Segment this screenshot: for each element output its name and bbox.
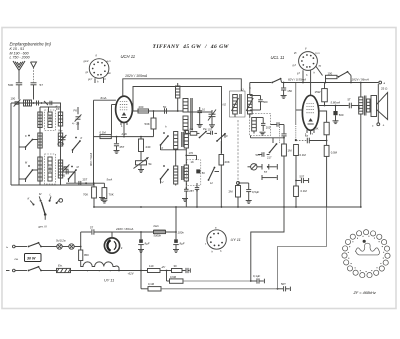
wire step C <box>360 206 362 208</box>
resistor Fein 5000 <box>154 230 166 233</box>
wire osc col 175 ends <box>175 149 177 166</box>
node 150 cap <box>283 82 285 84</box>
switch tone R3 <box>272 79 280 83</box>
wire main rail y207 <box>94 206 361 208</box>
wire bias A <box>166 271 168 282</box>
wire det link <box>254 117 263 119</box>
svg-text:57: 57 <box>40 83 44 87</box>
svg-text:5T: 5T <box>264 170 267 174</box>
wire osc top <box>177 83 179 86</box>
wire IF2 bottoms <box>234 114 236 117</box>
svg-text:K: K <box>25 134 27 138</box>
svg-text:N2: N2 <box>223 103 227 107</box>
U1 pin leads <box>120 122 122 125</box>
resistor 110 <box>148 269 161 273</box>
wire 70k taps <box>93 183 95 187</box>
trimmer T3 <box>64 166 69 168</box>
switch S1b <box>26 170 33 179</box>
capacitor C2 57 <box>31 82 37 84</box>
svg-text:1000: 1000 <box>49 115 52 121</box>
ground 8uF a <box>138 249 144 251</box>
svg-text:30: 30 <box>174 264 178 268</box>
capacitor 5T coupling <box>296 140 307 142</box>
resistor Eisen <box>57 268 71 272</box>
svg-text:0,5µF: 0,5µF <box>252 190 259 194</box>
padder can (dashed) <box>187 160 201 186</box>
node 240 top <box>140 136 142 138</box>
wire AF y137.8 <box>251 137 285 139</box>
switch S2a <box>73 141 81 150</box>
resistor 950 <box>79 250 83 261</box>
pentode U2 UCL11 <box>302 95 318 130</box>
svg-text:15W: 15W <box>315 90 321 94</box>
svg-text:25T: 25T <box>120 145 125 149</box>
svg-text:202: 202 <box>266 126 271 130</box>
svg-text:g,f: g,f <box>297 72 300 75</box>
ground left bus <box>99 197 105 199</box>
switch AC2 <box>29 267 39 271</box>
wire col x48.5 <box>48 107 50 112</box>
capacitor 202 <box>262 118 264 124</box>
coil L1a <box>38 112 42 128</box>
svg-text:0.1M: 0.1M <box>301 189 308 193</box>
core IF2 <box>239 94 241 114</box>
node rail dots <box>93 206 95 208</box>
wire osc y149.5 <box>161 149 187 151</box>
wire anode rail R1 <box>123 79 242 97</box>
wire bias B cont <box>161 288 278 290</box>
svg-text:UCH 11: UCH 11 <box>121 54 136 59</box>
switch AF <box>270 144 277 153</box>
svg-text:1K: 1K <box>191 160 194 164</box>
capacitor 25T avc <box>196 183 198 187</box>
svg-text:20K: 20K <box>225 160 230 164</box>
wire R6 <box>94 136 154 138</box>
coil L2a (dashed can) <box>45 110 56 131</box>
svg-text:100v: 100v <box>178 230 185 234</box>
resistor 15K <box>319 111 327 122</box>
svg-text:182V / 56mA: 182V / 56mA <box>352 77 369 81</box>
svg-text:5,80mA: 5,80mA <box>331 101 341 105</box>
capacitor 25T osc <box>184 188 189 190</box>
svg-text:UY 11: UY 11 <box>231 238 241 242</box>
svg-text:950: 950 <box>84 253 89 257</box>
capacitor 0.1uF <box>256 278 258 283</box>
U2 pin leads <box>306 130 308 133</box>
wire top link <box>40 106 61 108</box>
coil Losc g <box>184 165 188 181</box>
capacitor 25T grid <box>116 137 118 144</box>
svg-text:Fein: Fein <box>154 224 160 228</box>
core IF1 <box>190 98 192 130</box>
svg-text:2M: 2M <box>229 190 234 194</box>
wire 0.1M mid <box>295 156 297 187</box>
coil IF2 secondary <box>248 95 253 115</box>
wire antenna down <box>18 71 20 82</box>
wire osc col <box>180 110 183 112</box>
wire ant2 down <box>33 68 35 83</box>
svg-text:200: 200 <box>139 105 144 109</box>
wire 141 down <box>140 245 142 289</box>
wire osc mid col <box>185 148 187 165</box>
switch S1a <box>26 140 33 148</box>
wire lamp to node <box>74 246 81 248</box>
resistor 0.1M a <box>294 145 299 156</box>
svg-text:170: 170 <box>189 151 194 155</box>
svg-text:K: K <box>81 136 83 140</box>
triode-hexode U1 UCH11 <box>116 96 133 122</box>
svg-text:ca.: ca. <box>15 257 19 261</box>
wire heater row <box>71 270 148 272</box>
resistor 0.1M bias <box>148 287 161 291</box>
svg-text:240: 240 <box>146 145 151 149</box>
resistor 70K a <box>92 187 97 198</box>
svg-text:gm4: gm4 <box>84 60 89 63</box>
ground detector <box>260 131 266 133</box>
phono jack 2 <box>262 177 277 179</box>
terminal AC2 <box>6 270 10 272</box>
resistor 200 <box>138 109 149 113</box>
svg-text:25T: 25T <box>83 178 88 182</box>
switch AC1 <box>29 243 39 247</box>
coil L3b <box>58 133 62 146</box>
wire step A <box>251 207 284 281</box>
coil detector <box>252 118 257 132</box>
switch pad c <box>209 168 215 181</box>
svg-text:Empfangsbereiche (m): Empfangsbereiche (m) <box>10 41 52 46</box>
svg-text:50: 50 <box>202 171 205 175</box>
speaker 25ohm <box>371 96 377 117</box>
wire anode U2 <box>319 105 349 107</box>
capacitor 0.5uF <box>248 183 250 189</box>
wire screen rail R2 <box>133 87 222 154</box>
wire coupling bus <box>11 102 61 104</box>
tuning gang C2 <box>209 113 216 115</box>
capacitor 8uF b <box>175 232 177 239</box>
node antenna junction <box>18 102 20 104</box>
resistor 0.5M <box>324 145 329 156</box>
node 2M top <box>237 182 240 185</box>
svg-text:240V / 69mA: 240V / 69mA <box>115 227 133 231</box>
svg-text:100: 100 <box>11 97 16 101</box>
node 1M rail <box>283 206 285 208</box>
rectifier UY11 <box>104 238 119 253</box>
capacitor C-ant 500 <box>16 82 22 84</box>
svg-text:Eis.: Eis. <box>58 264 63 268</box>
antenna A1 <box>13 61 25 71</box>
svg-text:150: 150 <box>287 89 292 93</box>
svg-text:25T: 25T <box>63 166 68 170</box>
resistor 0.1M grid <box>100 135 111 139</box>
svg-text:K: K <box>56 105 58 109</box>
wire 20K to rail <box>220 165 222 207</box>
capacitor 50T det <box>261 152 263 157</box>
svg-text:U: U <box>162 181 164 184</box>
svg-text:0,6M: 0,6M <box>170 275 177 279</box>
UCL socket leads <box>302 70 304 82</box>
wire step B <box>278 247 327 289</box>
svg-text:70K: 70K <box>83 192 88 196</box>
dial cord diagram <box>385 253 390 258</box>
trim arrows IF2 <box>232 98 239 111</box>
svg-text:8µF: 8µF <box>180 242 185 246</box>
capacitor 8uF a <box>140 232 142 239</box>
switch band osc b <box>161 170 169 180</box>
wire osc sw <box>197 132 200 134</box>
coil L2b (dashed can) <box>45 154 56 184</box>
wire heater riser <box>80 232 82 247</box>
socket UCL11 (bottom view) <box>299 52 318 71</box>
wire ant ground rail <box>10 103 12 185</box>
svg-text:5T: 5T <box>305 134 309 138</box>
switch band osc a <box>161 136 169 145</box>
wire rectifier anode <box>111 232 113 238</box>
svg-text:5c/0,2a: 5c/0,2a <box>56 238 66 242</box>
svg-text:4 - 20: 4 - 20 <box>72 122 80 126</box>
svg-text:500: 500 <box>263 100 268 104</box>
wire det out <box>271 124 277 126</box>
svg-text:70K: 70K <box>109 192 114 196</box>
wire -2V <box>160 270 172 272</box>
svg-text:0,5M: 0,5M <box>331 151 338 155</box>
trimmer FK 4-20 <box>77 107 79 114</box>
ground 500 blob <box>333 120 339 122</box>
terminal c+ <box>377 123 380 126</box>
resistor 53K <box>153 111 155 118</box>
capacitor det 1T <box>276 122 278 127</box>
wire OT bottom <box>360 114 362 207</box>
wire col x60.5 <box>60 103 62 185</box>
svg-text:+: + <box>383 123 385 127</box>
svg-text:L 750 - 2000: L 750 - 2000 <box>10 56 30 60</box>
resistor 30 <box>172 269 183 273</box>
trimmer Kw 4-20 <box>61 136 66 138</box>
trimmer antenna 100 <box>15 101 20 103</box>
gang dash line <box>237 120 239 182</box>
wire IF2 top right <box>249 83 251 95</box>
svg-text:500: 500 <box>339 113 344 117</box>
wire UCL rail R3 <box>250 82 271 84</box>
svg-text:50T: 50T <box>256 153 261 157</box>
svg-text:102V / 105mA: 102V / 105mA <box>125 74 148 78</box>
switch osc a <box>200 132 207 138</box>
svg-text:TIFFANY 45 GW / 46 GW: TIFFANY 45 GW / 46 GW <box>153 44 230 50</box>
capacitor 10T <box>210 131 212 135</box>
ground bus front-end <box>11 184 94 186</box>
wire osc left col <box>160 145 162 150</box>
socket UCH11 (bottom view) <box>89 59 109 79</box>
svg-text:25 Ω: 25 Ω <box>381 87 388 91</box>
svg-text:5000h: 5000h <box>154 234 162 238</box>
wire OT primary top <box>360 83 362 98</box>
resistor 1M <box>283 125 285 134</box>
svg-text:k,m: k,m <box>316 52 320 55</box>
wire to terminal c <box>377 84 379 123</box>
coupling coil box <box>24 100 32 106</box>
coil Losc c <box>183 116 188 130</box>
svg-text:500: 500 <box>8 83 13 87</box>
resistor 15W <box>324 83 326 89</box>
svg-text:gc,f: gc,f <box>88 78 92 81</box>
coil L1c <box>38 157 42 181</box>
svg-text:1M: 1M <box>288 149 293 153</box>
detector can (dashed) <box>250 114 271 136</box>
svg-text:g,h: g,h <box>293 64 297 67</box>
resistor 0M pad <box>190 132 197 136</box>
capacitor end <box>182 270 185 272</box>
lamp LA1 <box>57 244 62 249</box>
svg-text:6mA: 6mA <box>101 96 107 100</box>
svg-text:0.1M: 0.1M <box>100 130 107 134</box>
ground gang2 <box>209 124 215 126</box>
capacitor 50 <box>164 108 166 113</box>
capacitor 50T bias <box>278 288 284 290</box>
capacitor 500 IF <box>260 96 262 100</box>
svg-text:0.1M: 0.1M <box>300 153 307 157</box>
capacitor coupling <box>36 101 38 106</box>
svg-text:ger. N: ger. N <box>39 225 48 229</box>
svg-text:25T: 25T <box>189 189 194 193</box>
phono jack 1 <box>257 166 262 168</box>
lamp LA2 <box>62 246 69 248</box>
svg-text:53K: 53K <box>145 122 150 126</box>
capacitor 500 blob <box>335 106 337 112</box>
switch S2b <box>69 170 77 179</box>
coil IF2 primary <box>233 95 238 115</box>
svg-text:0,1µF: 0,1µF <box>253 274 260 278</box>
svg-text:8µF: 8µF <box>145 242 150 246</box>
svg-text:10T: 10T <box>208 128 213 132</box>
resistor 0.1M b <box>294 186 299 197</box>
capacitor 5T heater <box>81 231 92 233</box>
wire 0.5M down <box>326 156 328 207</box>
svg-text:15K: 15K <box>314 127 319 131</box>
wire col x40 <box>39 107 41 185</box>
socket UY11 (bottom view) <box>207 230 226 249</box>
svg-text:5T: 5T <box>348 98 352 102</box>
switch osc b <box>217 134 225 141</box>
capacitor 150 <box>283 83 285 88</box>
capacitor 50T grid <box>296 180 301 182</box>
wire bias A cont <box>183 280 251 282</box>
svg-text:90V / 5mA: 90V / 5mA <box>89 153 93 166</box>
power box ca 30W <box>25 254 42 262</box>
svg-text:850: 850 <box>357 105 361 110</box>
svg-text:am: am <box>108 72 111 75</box>
resistor 240 <box>140 137 142 139</box>
filament chain <box>81 261 119 271</box>
terminal a <box>379 81 382 84</box>
svg-text:50: 50 <box>163 105 167 109</box>
resistor 20K <box>219 155 224 166</box>
IF2 can outline <box>230 91 246 117</box>
coil Losc a <box>176 86 180 98</box>
wire UCL grid riser <box>295 83 297 124</box>
switch output <box>339 72 348 77</box>
ground mid <box>182 198 188 200</box>
svg-text:50T: 50T <box>300 175 305 179</box>
ground 5k <box>138 169 144 171</box>
coil L3c <box>58 160 62 178</box>
wire osc y155.4 <box>186 154 196 156</box>
wire grid2 feed <box>112 104 116 106</box>
svg-text:≈: ≈ <box>6 245 8 249</box>
transformer output 850 <box>359 97 363 114</box>
svg-text:UY 11: UY 11 <box>104 279 114 283</box>
svg-text:-62V: -62V <box>128 271 135 275</box>
coil Losc b <box>183 99 188 113</box>
wire bias B <box>141 288 148 290</box>
wire osc link <box>188 111 200 113</box>
svg-text:UCL 11: UCL 11 <box>271 55 285 60</box>
svg-text:a,m: a,m <box>107 60 111 63</box>
svg-text:50T: 50T <box>281 282 286 286</box>
svg-text:45: 45 <box>62 174 66 178</box>
antenna A2 (frame) <box>31 62 37 68</box>
svg-text:0,1M: 0,1M <box>148 282 155 286</box>
svg-text:ZF = 468kHz: ZF = 468kHz <box>353 290 376 295</box>
svg-text:2.2k: 2.2k <box>121 132 128 136</box>
pickup TA <box>251 164 257 170</box>
capacitor 5T anode <box>348 103 350 109</box>
ground grid cap <box>114 150 120 152</box>
coil L1b <box>38 133 42 148</box>
coil Losc e <box>174 166 178 184</box>
svg-text:110: 110 <box>149 264 154 268</box>
node grid junction <box>116 136 118 138</box>
wire 0.1M to rail <box>295 197 297 208</box>
svg-text:K: K <box>28 197 30 201</box>
svg-text:5mA: 5mA <box>107 178 113 182</box>
svg-text:4 - 20: 4 - 20 <box>57 142 65 146</box>
wire 176 up <box>175 207 177 232</box>
ground 8uF b <box>173 249 179 251</box>
svg-text:10: 10 <box>202 108 205 112</box>
wire avc <box>61 171 75 173</box>
node AF <box>283 137 285 139</box>
ground cap10 <box>197 124 203 126</box>
capacitor 25T b <box>78 181 80 186</box>
wire y111 <box>132 110 179 112</box>
svg-text:100: 100 <box>328 71 333 75</box>
wire pad to 20K <box>224 134 226 138</box>
coil Losc d <box>174 132 178 150</box>
wire 100 taps <box>325 77 327 83</box>
series cap marks <box>44 101 48 105</box>
wire osc join <box>177 98 179 111</box>
wire grid bus 6mA <box>94 99 116 101</box>
ground 0.5uF <box>246 200 252 202</box>
wire 70k to rail <box>93 198 95 207</box>
resistor 0.6M <box>170 279 184 283</box>
svg-text:30 W: 30 W <box>27 257 36 261</box>
wire OT secondary <box>367 99 370 112</box>
rotary band switch <box>44 213 47 216</box>
coil L3a <box>58 112 62 126</box>
resistor 100 <box>326 75 338 78</box>
wire R3 cont <box>282 82 379 84</box>
wire col x93.5 grid <box>93 100 95 185</box>
node avc <box>93 182 95 184</box>
potentiometer 5k <box>140 152 142 161</box>
ground 150 <box>281 95 287 97</box>
capacitor 10 <box>199 107 201 111</box>
resistor 2M <box>236 186 241 198</box>
capacitor 25T a <box>65 170 67 175</box>
svg-text:1000: 1000 <box>49 166 52 172</box>
svg-text:FK: FK <box>74 109 78 113</box>
svg-text:217: 217 <box>267 156 272 160</box>
